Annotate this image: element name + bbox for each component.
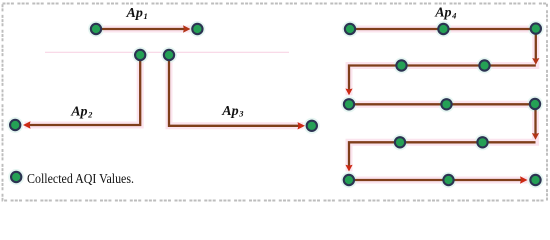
svg-text:Collected AQI Values.: Collected AQI Values.: [27, 172, 134, 187]
